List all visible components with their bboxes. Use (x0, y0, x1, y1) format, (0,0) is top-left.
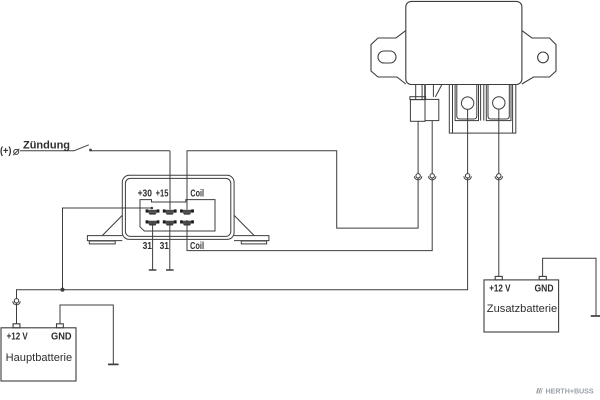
svg-text:31: 31 (160, 241, 170, 252)
svg-text:31: 31 (143, 241, 153, 252)
svg-text:Coil: Coil (190, 189, 204, 200)
svg-text:Hauptbatterie: Hauptbatterie (6, 352, 73, 364)
svg-text:+12 V: +12 V (7, 331, 28, 342)
svg-text:+12 V: +12 V (489, 283, 511, 294)
svg-text:GND: GND (51, 331, 72, 342)
svg-text:(+): (+) (0, 146, 11, 157)
svg-text:HERTH+BUSS: HERTH+BUSS (546, 388, 594, 395)
svg-text:Zusatzbatterie: Zusatzbatterie (487, 303, 557, 315)
svg-text:+15: +15 (156, 189, 169, 200)
svg-text:Zündung: Zündung (23, 140, 70, 152)
svg-text:GND: GND (535, 283, 554, 294)
svg-text:+30: +30 (138, 189, 153, 200)
